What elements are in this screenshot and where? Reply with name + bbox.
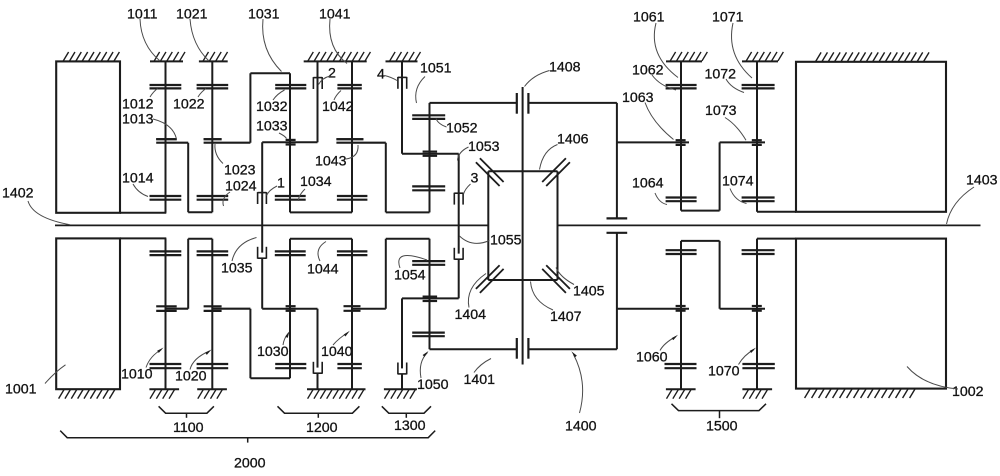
svg-text:1034: 1034: [300, 174, 332, 190]
svg-text:1011: 1011: [127, 7, 158, 23]
ground symbol under shaft 1061: [666, 389, 696, 398]
bevel gear 1405 bottom-right: [546, 265, 570, 289]
svg-text:1070: 1070: [708, 364, 740, 380]
svg-text:1064: 1064: [632, 176, 664, 192]
svg-text:1054: 1054: [394, 268, 426, 284]
gear on 1020 row B1: [197, 364, 229, 368]
svg-text:4: 4: [377, 67, 385, 83]
wire: element-1 shaft to lower link: [261, 259, 263, 309]
sleeve shaft 1030 vertical: [289, 73, 291, 212]
wire: top bus 1051 to clutch 1408: [430, 102, 517, 104]
wire: step link from gear 1013 down to shaft 1021 lower end: [187, 143, 189, 213]
clutch element 3 lower (cup): [454, 248, 463, 260]
brace group 1300: [382, 406, 431, 413]
svg-text:1035: 1035: [221, 261, 253, 277]
leader with arrow 1010: [146, 350, 162, 368]
clutch shaft 4 vertical: [401, 61, 403, 153]
shaft 1020 (lower): [211, 239, 213, 390]
ground symbol under shaft 1071: [742, 389, 772, 398]
bevel gear top-right: [546, 162, 570, 186]
synchronizer shaft 1 vertical: [261, 142, 263, 252]
large gear lower (row 334): [412, 333, 445, 337]
gear 1023: [204, 138, 222, 140]
svg-text:1020: 1020: [175, 369, 207, 385]
svg-text:1062: 1062: [632, 63, 664, 79]
gear 1013: [156, 138, 177, 140]
clutch shaft 3 vertical: [458, 154, 460, 254]
gear 1030 group row B3: [275, 251, 306, 255]
svg-text:1012: 1012: [122, 97, 154, 113]
clutch 1408 plates: [516, 93, 518, 114]
housing block 1001 lower half: [56, 238, 120, 389]
svg-text:1002: 1002: [952, 384, 984, 400]
leader with arrow 1040: [333, 333, 348, 346]
svg-text:1401: 1401: [464, 372, 496, 388]
countershaft 1051 vertical: [429, 103, 431, 212]
gear 1024: [197, 196, 229, 200]
differential input shaft (center vertical): [522, 87, 524, 365]
svg-text:1055: 1055: [490, 233, 522, 249]
leader with arrow 1070: [739, 350, 755, 365]
svg-text:3: 3: [471, 171, 479, 187]
svg-text:1300: 1300: [394, 418, 426, 434]
wire: link 1020 to sleeve 1030 (row 308): [212, 308, 250, 310]
wire: clutch 4 lower link row 298: [402, 297, 459, 299]
clutch shaft 2 lower vertical: [317, 309, 319, 368]
ground hatching on top of block 1001: [63, 52, 119, 61]
svg-text:1072: 1072: [705, 67, 737, 83]
main axle 1402 (left half): [55, 224, 488, 226]
sleeve shaft 1030 upper: link and top bar: [249, 73, 251, 142]
large gear on countershaft (row 188): [412, 186, 445, 190]
gear 1012: [150, 85, 182, 88]
gear 1032: [275, 85, 306, 88]
right riser shaft lower: [616, 233, 618, 349]
gear 1064: [666, 198, 697, 202]
svg-text:1405: 1405: [573, 284, 605, 300]
svg-text:1041: 1041: [319, 7, 351, 23]
svg-text:1032: 1032: [256, 99, 288, 115]
shaft 1010 (lower): [165, 238, 167, 389]
ground symbol above shaft 1011: [150, 52, 185, 61]
wire: block 1001 top edge to shaft 1010: [120, 237, 166, 239]
clutch element 1 (staple): [258, 192, 267, 204]
gear 1063: [676, 140, 686, 145]
svg-text:1408: 1408: [549, 60, 581, 76]
clutch element 3 (staple): [454, 193, 463, 205]
housing block 1001 upper half: [56, 61, 120, 212]
brace group 1500: [672, 404, 767, 411]
gear on 1041 lower row B2: [344, 306, 361, 311]
gear 1030 group row B2: [286, 306, 296, 311]
svg-text:2: 2: [328, 66, 336, 82]
gear 1052: [412, 115, 445, 119]
shaft 1061 lower: [680, 241, 682, 389]
ground symbol above clutch shaft 4: [386, 52, 421, 61]
gear on 1041 lower row B3: [337, 251, 368, 255]
svg-text:1050: 1050: [417, 377, 449, 393]
clutch element 4 lower (cup): [398, 363, 407, 375]
gear on 1041 lower row B1: [337, 364, 361, 368]
wire: U link lower right: [681, 240, 720, 242]
gear 1042: [337, 85, 361, 88]
wire: clutch 4 link at row 153 to shaft 1053: [402, 153, 459, 155]
gear 1072: [742, 85, 775, 88]
svg-text:1053: 1053: [468, 139, 500, 155]
brace group 1200: [278, 406, 360, 413]
wire: link 1010 row 308: [166, 308, 189, 310]
wire: bottom bus of 1030 group to shaft 1041: [290, 211, 352, 213]
leader with arrow 1060: [660, 337, 676, 351]
brace group 2000: [60, 431, 435, 438]
svg-text:1060: 1060: [636, 350, 668, 366]
svg-text:1500: 1500: [706, 419, 738, 435]
shaft 1021: [211, 61, 213, 212]
gear on shaft 1041 row T3: [337, 196, 368, 200]
gear 1054: [412, 261, 445, 265]
main axle 1403 (right half): [558, 224, 981, 226]
leader with arrow 1400: [574, 355, 583, 414]
shaft 1061: [680, 61, 682, 210]
svg-text:1031: 1031: [248, 7, 280, 23]
gear 1030 group row B1: [275, 364, 306, 368]
clutch element 4 (staple): [398, 77, 407, 89]
ground symbol above shaft 1061: [666, 52, 707, 61]
svg-text:1040: 1040: [321, 344, 353, 360]
gear on 1010 row B3: [150, 251, 182, 255]
leader with arrow 1030: [283, 333, 289, 345]
svg-text:1044: 1044: [307, 262, 339, 278]
small gear on 1010 row B2: [156, 306, 177, 311]
wire: riser to gear 1063 row: [617, 141, 689, 143]
gear 1033: [286, 140, 296, 145]
ground hatching under block 1002: [805, 389, 915, 398]
wire: cup 2 to ground: [317, 374, 319, 390]
wire: shaft 1071 lower to block 1002: [757, 238, 796, 240]
wire: top bus of lower 1030 group: [290, 238, 352, 240]
svg-text:1014: 1014: [122, 171, 154, 187]
svg-text:1021: 1021: [176, 7, 208, 23]
svg-text:1033: 1033: [256, 119, 288, 135]
svg-text:1001: 1001: [5, 382, 37, 398]
svg-text:1073: 1073: [705, 103, 737, 119]
ground symbol under shaft 1020: [197, 389, 227, 398]
gear 1043: [336, 138, 363, 140]
small gear on 1020 row B2: [204, 306, 222, 311]
ground symbol under shafts 1041 lower: [307, 389, 366, 398]
gear 1070: [742, 364, 774, 368]
svg-text:1: 1: [277, 176, 285, 192]
wire: element-1 lower link row 308: [262, 308, 317, 310]
leader lines: [140, 19, 160, 61]
gear 1034: [275, 196, 306, 200]
shaft 1011 (upper): [165, 61, 167, 212]
countershaft 1050 vertical (lower): [429, 239, 431, 350]
sleeve 1030 lower vertical: [289, 239, 291, 379]
clutch shaft 2 vertical: [317, 61, 319, 142]
svg-text:1400: 1400: [565, 419, 597, 435]
small gear on countershaft (row 153): [423, 152, 438, 156]
gear on 1071 row B3: [742, 250, 775, 254]
ground symbol under shaft 1010: [149, 389, 179, 398]
bevel gear 1406 top-left: [476, 162, 500, 186]
wire: U link of lower countershaft group: [385, 239, 387, 309]
svg-text:1042: 1042: [322, 99, 354, 115]
bevel gear 1404 bottom-left: [476, 265, 500, 289]
ground hatching on top of block 1002: [816, 52, 929, 61]
shaft 1071 lower: [756, 239, 758, 390]
wire: U link 1061 to 1071 group: [681, 210, 720, 212]
gear on 1010 row B1: [150, 364, 182, 368]
differential cage 1406/1407 box: [487, 171, 489, 280]
svg-text:1074: 1074: [722, 173, 754, 189]
ground symbol under clutch shaft 4: [384, 389, 417, 398]
svg-text:1071: 1071: [712, 10, 744, 26]
wire: 1408 to right riser: [528, 102, 617, 104]
ground hatching under block 1001: [59, 390, 115, 399]
svg-text:1051: 1051: [420, 61, 452, 77]
gear shaft 1041: [351, 61, 353, 212]
gear on 1061 row B3: [666, 250, 697, 254]
gear 1060: [665, 364, 697, 368]
wire: U link of countershaft group: [385, 143, 387, 213]
wire: block 1001 bottom edge to input shaft 1011: [120, 212, 166, 214]
svg-text:1200: 1200: [306, 420, 338, 436]
small gear lower (row 298): [423, 297, 438, 301]
gear 1063 lower: [676, 306, 686, 311]
gear 1022: [197, 85, 229, 88]
ground symbol above shaft 1021: [199, 52, 228, 61]
wire: 1401 to right riser (lower): [528, 348, 617, 350]
svg-text:1023: 1023: [224, 163, 256, 179]
housing block 1002 upper half: [796, 62, 946, 212]
wire: synchronizer 1 link to shaft 2 at row T2: [262, 141, 317, 143]
svg-text:1013: 1013: [122, 112, 154, 128]
svg-text:1063: 1063: [622, 90, 654, 106]
svg-text:1022: 1022: [173, 97, 205, 113]
clutch element 2 lower (cup): [313, 362, 322, 374]
clutch 1401 plates: [516, 338, 518, 359]
svg-text:1030: 1030: [257, 344, 289, 360]
svg-text:1043: 1043: [315, 154, 347, 170]
gear 1074: [742, 198, 775, 202]
svg-text:1052: 1052: [446, 121, 478, 137]
housing block 1002 lower half: [796, 239, 946, 389]
shaft 1071: [756, 61, 758, 211]
clutch shaft 4 lower vertical: [401, 298, 403, 368]
svg-text:1402: 1402: [2, 186, 34, 202]
wire: lower bus 1050 to clutch 1401: [430, 348, 517, 350]
svg-text:1100: 1100: [173, 420, 204, 436]
gear 1014: [150, 196, 182, 200]
brace group 1100: [159, 406, 214, 413]
clutch element 2 (staple): [313, 77, 322, 89]
ground symbol above shaft 1071: [742, 52, 783, 61]
svg-text:2000: 2000: [234, 456, 266, 472]
svg-text:1010: 1010: [121, 367, 153, 383]
wire: sleeve 1030 lower link: [249, 309, 251, 379]
svg-text:1061: 1061: [633, 10, 665, 26]
svg-text:1407: 1407: [550, 309, 582, 325]
clutch element 1035 (cup): [258, 247, 267, 259]
gear 1073 lower: [752, 306, 762, 311]
wire: riser to lower gear row 308: [617, 308, 689, 310]
ground symbol above shafts 1041: [304, 52, 371, 61]
wire: shaft 1071 to block 1002 bottom edge: [757, 211, 796, 213]
leader with arrow 1020: [190, 351, 210, 370]
wire: step link lower left: [187, 239, 189, 309]
svg-text:1404: 1404: [455, 307, 487, 323]
coupling plates on main axle at 617: [607, 217, 628, 219]
svg-text:1406: 1406: [557, 132, 589, 148]
svg-text:1403: 1403: [966, 173, 998, 189]
leader with arrow 1050: [420, 353, 427, 379]
gear 1062: [666, 85, 697, 88]
gear 1073: [752, 140, 762, 145]
gear shaft 1041 lower: [351, 239, 353, 390]
right riser shaft upper: [616, 103, 618, 218]
gear on 1020 row B3: [197, 251, 229, 255]
